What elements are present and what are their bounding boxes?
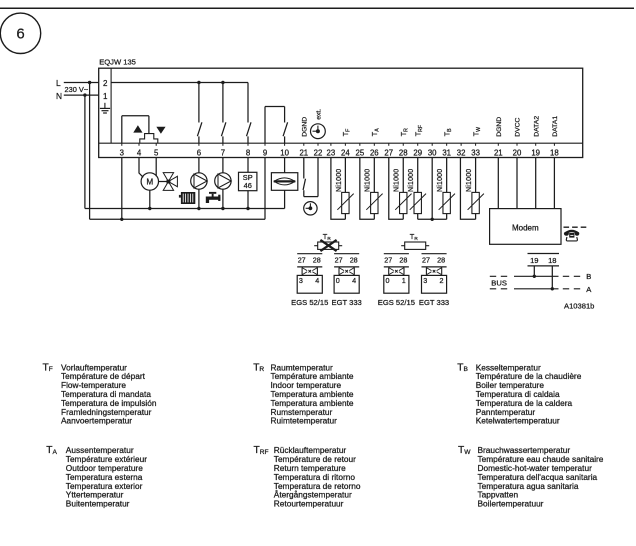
EGT 333 box [334, 275, 359, 293]
sensor TR thermistor terminal 28 [402, 158, 404, 193]
junction t3 lower bus [120, 218, 123, 221]
EGS 52/15 block lower bar [384, 266, 409, 268]
junction bus B [533, 275, 536, 278]
three-way mixing valve [163, 173, 173, 182]
svg-text:10: 10 [280, 148, 289, 157]
EGS 52/15 connector symbol [388, 268, 390, 275]
svg-text:DGND: DGND [301, 117, 308, 137]
EGT 333 block top bar [422, 253, 447, 255]
burner flame symbol [274, 178, 295, 185]
svg-text:29: 29 [413, 148, 422, 157]
svg-text:Aanvoertemperatur: Aanvoertemperatur [61, 416, 132, 426]
svg-text:32: 32 [457, 148, 466, 157]
bus terminal strip [528, 253, 560, 255]
svg-text:230 V~: 230 V~ [65, 85, 89, 94]
sensor TW left wire terminal 32 [460, 158, 475, 220]
svg-text:Buitentemperatur: Buitentemperatur [66, 499, 130, 509]
bus line B [514, 275, 559, 277]
svg-text:28: 28 [399, 148, 408, 157]
bus line A [514, 288, 559, 290]
wire N drop to upper bus [84, 95, 86, 208]
heating circuit pump 1 [191, 173, 207, 189]
svg-text:18: 18 [550, 148, 559, 157]
internal switch to terminal 10 [284, 107, 286, 123]
svg-text:3: 3 [423, 276, 427, 285]
wire motor to upper bus [149, 190, 151, 208]
internal wire terminal 9 [264, 107, 266, 144]
left terminal column divider [110, 68, 112, 143]
EGT 333 block lower bar [422, 266, 447, 268]
svg-text:19: 19 [530, 256, 538, 265]
svg-text:27: 27 [422, 256, 430, 265]
svg-text:24: 24 [341, 148, 350, 157]
EGS 52/15 block lower bar [297, 266, 322, 268]
svg-text:6: 6 [197, 148, 201, 157]
wire terminal 20 to modem [516, 158, 518, 209]
EGS 52/15 box [297, 275, 322, 293]
controller box EQJW 135 [99, 68, 583, 157]
sensor TR left wire terminal 27 [389, 158, 403, 220]
svg-text:Ni1000: Ni1000 [394, 169, 401, 192]
svg-text:7: 7 [221, 148, 225, 157]
svg-text:EGT 333: EGT 333 [419, 298, 449, 307]
svg-text:26: 26 [370, 148, 379, 157]
EGS 52/15 box [384, 275, 409, 293]
internal relay switch to terminal 8 [247, 83, 249, 123]
lower triangle [157, 127, 165, 133]
internal relay switch to terminal 6 [198, 83, 200, 123]
svg-text:Ni1000: Ni1000 [336, 169, 343, 192]
svg-text:2: 2 [440, 276, 444, 285]
clock symbol ext input (22) [311, 124, 326, 139]
wire motor to valve [159, 181, 169, 183]
internal loop terminals 9-10 top bar [265, 106, 285, 108]
external clock symbol [304, 202, 317, 215]
internal feed wire from terminal 2 [111, 82, 248, 84]
wire terminal 9 to lower bus [264, 158, 266, 220]
svg-text:DATA1: DATA1 [552, 116, 559, 137]
DHW pump 2 [215, 173, 231, 189]
raise triangle [134, 126, 142, 132]
wire burner to upper bus [284, 190, 286, 208]
svg-text:Boilertemperatuur: Boilertemperatuur [478, 499, 544, 509]
EGS 52/15 block top bar [384, 253, 409, 255]
internal riser from terminal 3 [121, 116, 123, 143]
wire terminal 6 to pump 1 [198, 158, 200, 174]
svg-text:1: 1 [103, 92, 108, 101]
svg-text:Ni1000: Ni1000 [365, 169, 372, 192]
telephone icon [564, 230, 579, 241]
wire terminal 5 to motor [155, 158, 157, 177]
sensor TF thermistor terminal 24 [344, 158, 346, 193]
svg-text:27: 27 [335, 256, 343, 265]
EGT 333 block top bar [334, 253, 359, 255]
svg-text:Ni1000: Ni1000 [466, 169, 473, 192]
svg-text:9: 9 [263, 148, 267, 157]
svg-text:M: M [146, 178, 153, 187]
wire terminal 21 to modem [497, 158, 499, 209]
svg-text:3: 3 [299, 276, 303, 285]
svg-text:8: 8 [246, 148, 250, 157]
svg-text:EGS 52/15: EGS 52/15 [378, 298, 415, 307]
upper bus wire (N) [85, 208, 285, 210]
sensor TRF thermistor terminal 29 [417, 158, 419, 193]
junction N drop [83, 93, 86, 96]
EGT 333 block lower bar [334, 266, 359, 268]
junction feed/switch 6 [197, 81, 200, 84]
SP 46 box [239, 172, 257, 190]
svg-text:31: 31 [442, 148, 451, 157]
svg-text:A10381b: A10381b [564, 301, 594, 310]
svg-text:Ketelwatertemperatuur: Ketelwatertemperatuur [476, 416, 560, 426]
wire 18 to bus A [551, 266, 553, 289]
wire terminal 7 to pump 2 [222, 158, 224, 174]
svg-text:L: L [56, 78, 61, 88]
wire pump 2 to upper bus [222, 189, 224, 208]
junction motor/upper bus [148, 207, 151, 210]
svg-text:DATA2: DATA2 [533, 116, 540, 137]
svg-text:Ni1000: Ni1000 [408, 169, 415, 192]
sensor common wire terminal 30 [431, 158, 433, 220]
junction bus A [551, 287, 554, 290]
junction pump1/upper bus [197, 207, 200, 210]
ground symbol [104, 103, 106, 109]
junction SP46/upper bus [246, 207, 249, 210]
wire terminal 18 to modem [553, 158, 555, 209]
svg-text:EGS 52/15: EGS 52/15 [291, 298, 328, 307]
svg-text:28: 28 [313, 256, 321, 265]
sensor TW thermistor terminal 33 [475, 158, 477, 193]
three-point actuator output symbol [140, 134, 158, 144]
svg-text:2: 2 [103, 79, 108, 88]
radiator icon [181, 192, 195, 204]
svg-text:19: 19 [531, 148, 540, 157]
svg-text:25: 25 [355, 148, 364, 157]
svg-text:27: 27 [384, 148, 393, 157]
external switch terminals 21-22 [303, 158, 305, 179]
page top rule [0, 7, 634, 9]
svg-text:Ruimtetemperatur: Ruimtetemperatur [271, 416, 338, 426]
wire SP 46 to upper bus [247, 191, 249, 209]
tap icon [206, 192, 221, 203]
sensor TA left wire terminal 25 [360, 158, 374, 220]
svg-text:EGT 333: EGT 333 [332, 298, 362, 307]
junction L drop [88, 81, 91, 84]
EGT 333 box [422, 275, 447, 293]
svg-text:5: 5 [154, 148, 159, 157]
modem box [490, 209, 561, 245]
svg-text:Ni1000: Ni1000 [437, 169, 444, 192]
svg-text:33: 33 [471, 148, 480, 157]
svg-text:21: 21 [299, 148, 308, 157]
wire L to terminal 2 [64, 82, 99, 84]
svg-text:27: 27 [298, 256, 306, 265]
svg-text:22: 22 [314, 148, 323, 157]
EGS 52/15 connector symbol [301, 268, 303, 275]
svg-text:ext.: ext. [316, 109, 323, 120]
wire terminal 3 to lower bus [121, 158, 123, 220]
junction feed/switch 7 [221, 81, 224, 84]
svg-text:B: B [586, 272, 591, 281]
wire N to terminal 1 [64, 94, 99, 96]
EGT 333 connector symbol [425, 268, 427, 275]
svg-text:N: N [56, 91, 62, 101]
svg-text:28: 28 [399, 256, 407, 265]
wire terminal 8 to SP 46 [247, 158, 249, 173]
internal relay switch to terminal 7 [222, 83, 224, 123]
EGS 52/15 block top bar [297, 253, 322, 255]
svg-text:1: 1 [402, 276, 406, 285]
sensor common bottom wire 29-31 [418, 218, 447, 220]
sensor TB thermistor terminal 31 [446, 158, 448, 193]
svg-text:46: 46 [244, 181, 252, 190]
svg-text:Modem: Modem [512, 224, 539, 233]
terminal ticks [121, 143, 123, 146]
svg-text:18: 18 [548, 256, 556, 265]
svg-text:Retourtemperatuur: Retourtemperatuur [274, 499, 344, 509]
svg-text:6: 6 [16, 26, 24, 43]
svg-text:21: 21 [494, 148, 503, 157]
svg-text:BUS: BUS [491, 279, 507, 288]
wire terminal 19 to modem [535, 158, 537, 209]
wire pump 1 to upper bus [198, 189, 200, 208]
terminal strip line [99, 142, 583, 144]
lower bus wire (L) [90, 218, 265, 220]
svg-text:0: 0 [336, 276, 340, 285]
svg-text:30: 30 [428, 148, 437, 157]
svg-text:28: 28 [437, 256, 445, 265]
wire terminal 10 to burner box [284, 158, 286, 173]
dashed phone line [564, 226, 589, 228]
svg-text:0: 0 [386, 276, 390, 285]
svg-text:27: 27 [384, 256, 392, 265]
junction terminal 30 common [430, 218, 433, 221]
sensor TA thermistor terminal 26 [373, 158, 375, 193]
junction pump2/upper bus [221, 207, 224, 210]
svg-text:28: 28 [350, 256, 358, 265]
svg-text:4: 4 [315, 276, 319, 285]
actuator motor M [141, 173, 158, 190]
wire L drop to lower bus [89, 83, 91, 220]
figure number circle 6 [0, 13, 40, 53]
svg-text:23: 23 [327, 148, 336, 157]
wire 19 to bus B [533, 266, 535, 276]
sensor TF left wire terminal 23 [331, 158, 345, 220]
svg-text:EQJW 135: EQJW 135 [99, 57, 136, 66]
svg-text:DGND: DGND [496, 117, 503, 137]
burner box [271, 173, 297, 191]
svg-text:4: 4 [352, 276, 356, 285]
svg-text:4: 4 [137, 148, 142, 157]
svg-text:20: 20 [513, 148, 522, 157]
wire terminal 4 to motor [139, 158, 143, 178]
svg-text:3: 3 [120, 148, 124, 157]
svg-text:DVCC: DVCC [515, 117, 522, 136]
EGT 333 connector symbol [338, 268, 340, 275]
